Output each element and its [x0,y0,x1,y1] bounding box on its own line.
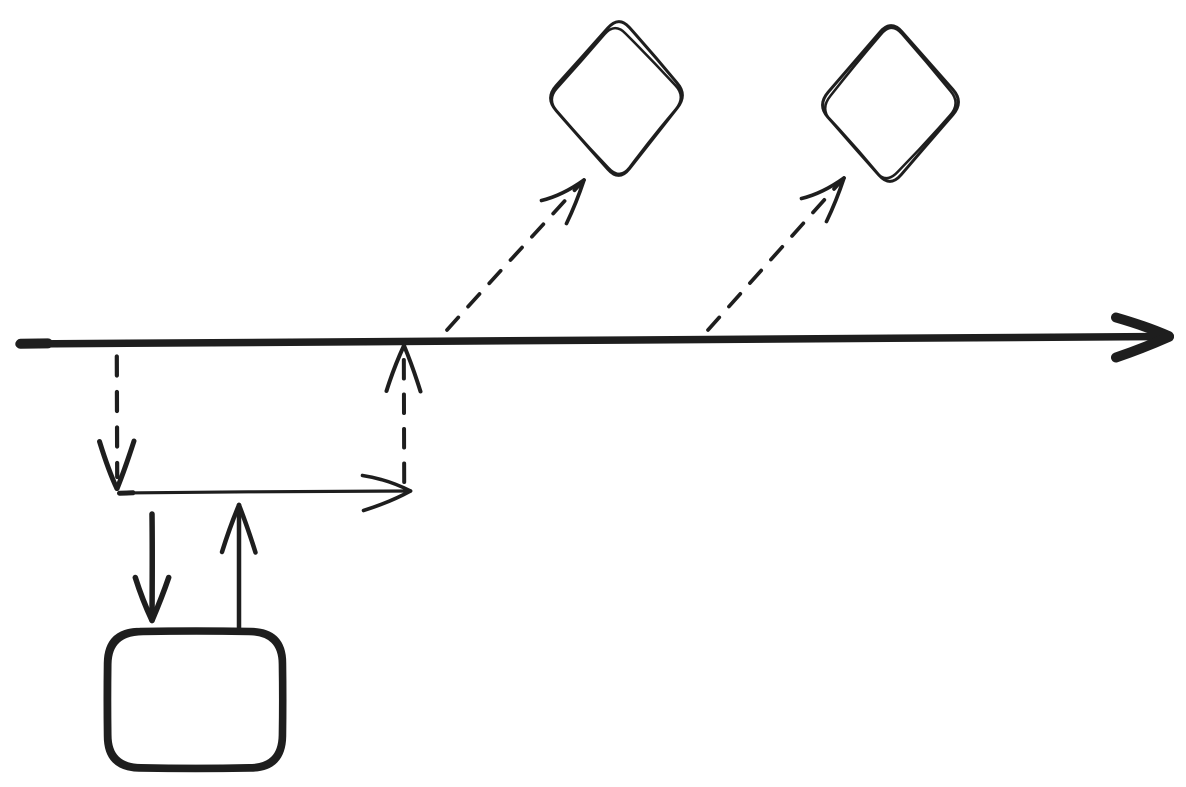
solid horizontal arrow C1 [119,476,411,511]
dashed up arrow B2 [387,346,421,483]
timeline arrow [19,318,1169,358]
solid down arrow E1 [135,514,168,621]
dashed arrow A1 to diamond D1 [447,180,584,330]
solid up arrow E2 [222,505,256,630]
diamond D1 [551,22,683,176]
dashed down arrow B1 [100,357,135,489]
rounded rectangle box [106,630,284,770]
dashed arrow A2 to diamond D2 [708,178,844,330]
diamond D2 [823,26,959,182]
